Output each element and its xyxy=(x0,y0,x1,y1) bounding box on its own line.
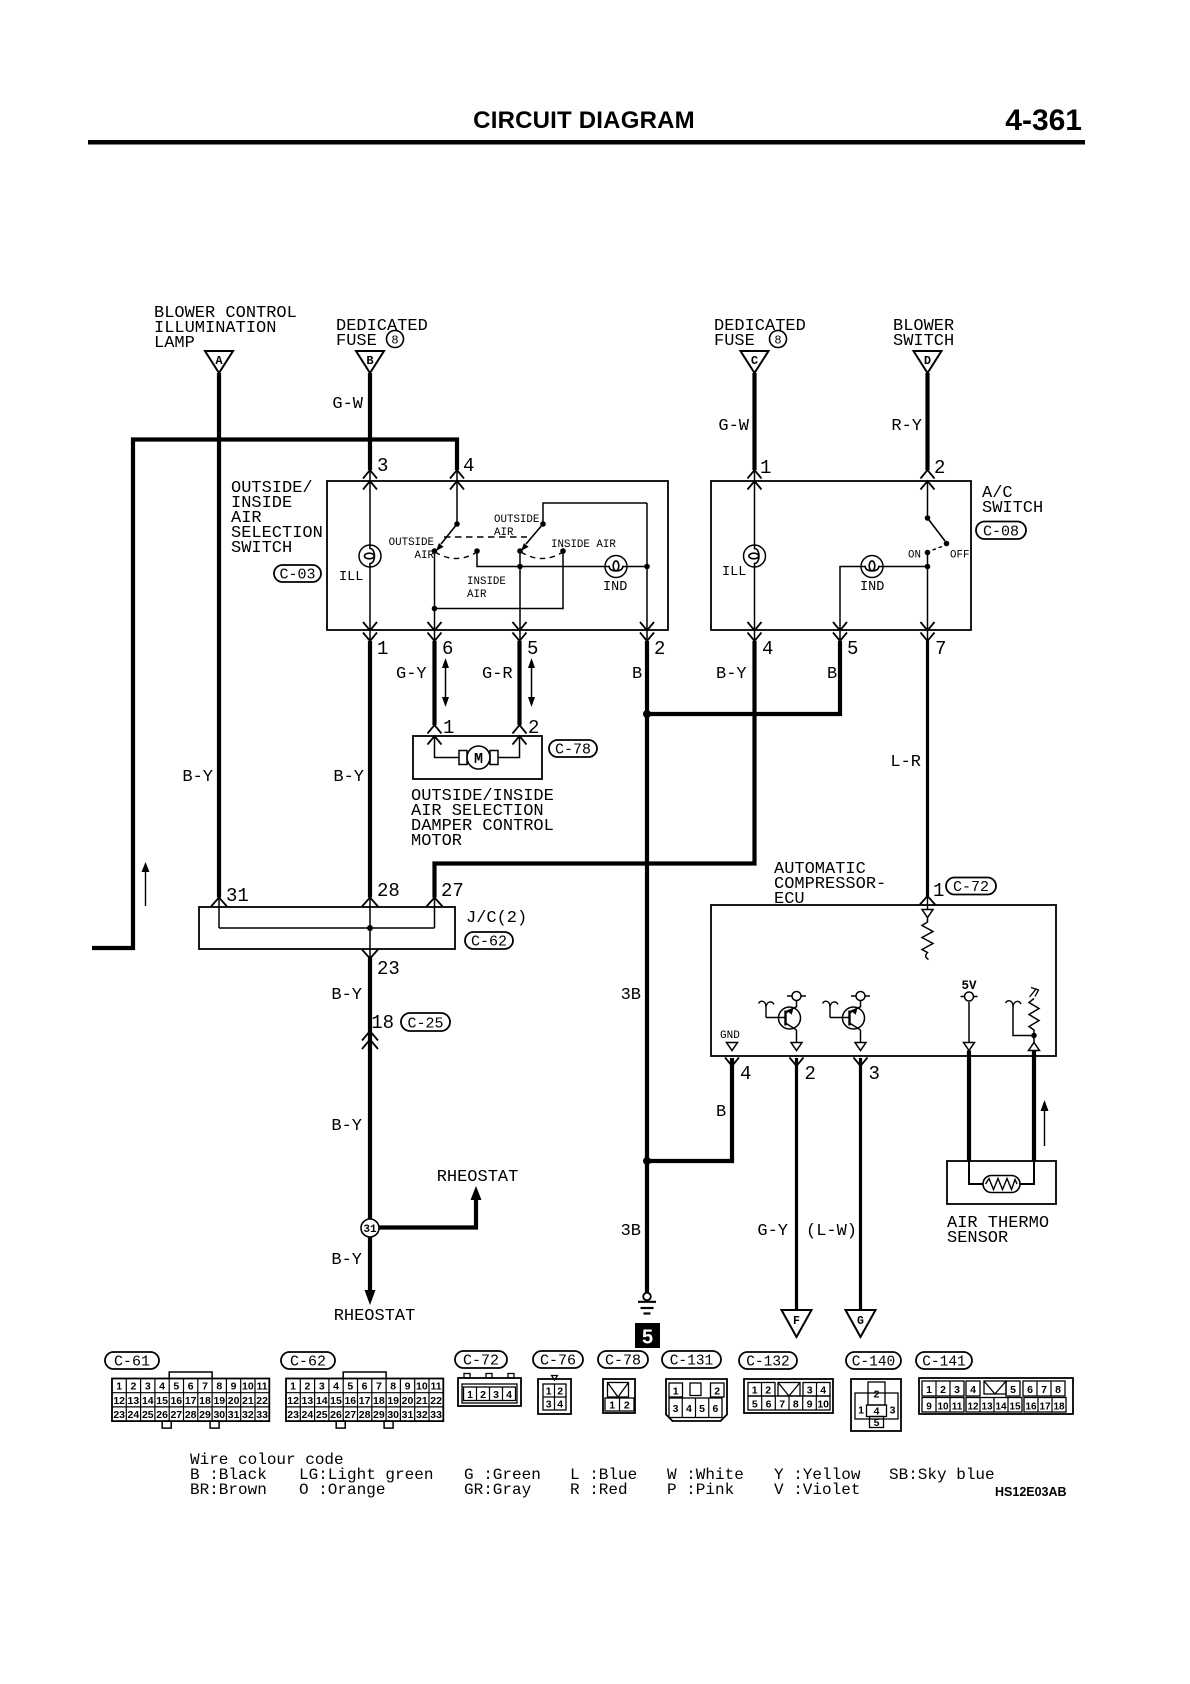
transistor Q2 xyxy=(823,1001,865,1043)
motor pin 1 entry chevrons xyxy=(428,725,442,745)
svg-text:C-78: C-78 xyxy=(605,1353,641,1370)
svg-text:J/C(2): J/C(2) xyxy=(466,909,527,928)
connector C-72 pin grid xyxy=(458,1374,521,1407)
svg-text:3: 3 xyxy=(673,1403,679,1415)
svg-text:10: 10 xyxy=(817,1399,829,1411)
switch box C-08 xyxy=(711,481,971,630)
svg-text:2: 2 xyxy=(130,1381,136,1393)
svg-text:C-25: C-25 xyxy=(407,1016,443,1033)
wire ECU pin3 to connector G xyxy=(859,1058,862,1310)
svg-text:5: 5 xyxy=(642,1327,653,1349)
svg-text:11: 11 xyxy=(431,1381,442,1393)
svg-text:15: 15 xyxy=(330,1395,342,1407)
connector label C-78 xyxy=(598,1351,648,1370)
pin2 column to switch pivot xyxy=(927,481,929,518)
svg-text:3B: 3B xyxy=(621,1222,641,1241)
svg-text:AIR: AIR xyxy=(467,589,487,601)
double arrow beside G-R xyxy=(528,658,535,707)
svg-text:SWITCH: SWITCH xyxy=(982,499,1043,518)
connector label C-72 xyxy=(946,878,996,897)
connector triangle G xyxy=(846,1310,876,1337)
label DEDICATED FUSE 8 (right) xyxy=(714,317,806,351)
svg-text:AIR: AIR xyxy=(494,527,514,539)
SECTION: c03 xyxy=(231,470,668,641)
svg-text:SENSOR: SENSOR xyxy=(947,1229,1008,1248)
wire blower switch D down to C-08 pin 2 xyxy=(925,373,929,470)
splice circle 31 xyxy=(361,1219,379,1237)
GND triangle xyxy=(727,1043,738,1051)
svg-text:4: 4 xyxy=(970,1384,976,1396)
transistor Q2 top port xyxy=(851,992,870,1001)
flow arrow beside sensor wire xyxy=(1041,1100,1049,1146)
svg-text:1: 1 xyxy=(752,1385,758,1397)
svg-text:1: 1 xyxy=(377,638,388,660)
svg-text:30: 30 xyxy=(213,1409,225,1421)
svg-text:OUTSIDE: OUTSIDE xyxy=(494,514,539,526)
svg-text:P :Pink: P :Pink xyxy=(667,1481,734,1499)
connector C-78 pin grid xyxy=(603,1379,635,1413)
svg-text:B: B xyxy=(716,1103,726,1122)
C-08 pin 4 exit chevrons xyxy=(748,622,762,641)
thermistor zigzag xyxy=(986,1179,1018,1190)
pin3 column to ILL lamp xyxy=(369,470,371,545)
svg-text:19: 19 xyxy=(387,1395,399,1407)
SECTION: wires xyxy=(92,373,946,1293)
svg-text:R-Y: R-Y xyxy=(891,417,922,436)
svg-text:1: 1 xyxy=(546,1386,552,1398)
svg-text:ILL: ILL xyxy=(722,565,746,580)
svg-text:4: 4 xyxy=(506,1389,512,1401)
svg-text:1: 1 xyxy=(467,1389,473,1401)
SECTION: connrow xyxy=(105,1351,1073,1431)
wire G-R pin5 to motor pin2 xyxy=(517,641,521,725)
svg-text:3: 3 xyxy=(377,455,388,477)
connector label C-72 xyxy=(455,1351,507,1370)
pin2 inner column xyxy=(646,503,648,641)
ILL lamp to pin 1 xyxy=(369,567,371,641)
svg-text:SB:Sky blue: SB:Sky blue xyxy=(889,1466,995,1484)
connector label C-132 xyxy=(739,1352,797,1371)
wire ECU pin2 to connector F xyxy=(795,1058,798,1310)
junction dot B wires xyxy=(643,710,651,718)
ON contact down to pin 7 xyxy=(927,553,929,642)
sensor inner leads xyxy=(969,1161,1034,1184)
transistor Q1 top port xyxy=(787,992,806,1001)
label DEDICATED FUSE 8 (left) xyxy=(336,317,428,351)
wire B-Y from C-03 pin1 to J/C pin 28 xyxy=(368,641,372,898)
connector C-132 pin grid xyxy=(744,1379,833,1413)
pin1 column to ILL lamp xyxy=(754,470,756,545)
motor box C-78 xyxy=(413,736,542,779)
svg-text:33: 33 xyxy=(430,1409,442,1421)
svg-text:20: 20 xyxy=(402,1395,414,1407)
svg-text:5: 5 xyxy=(1010,1384,1016,1396)
motor inner wiring left xyxy=(435,736,460,758)
ECU pin 3 exit chevron xyxy=(854,1058,868,1067)
junction dot on pin6 column xyxy=(432,606,438,612)
svg-text:11: 11 xyxy=(257,1381,268,1393)
svg-text:ON: ON xyxy=(908,550,921,562)
svg-text:26: 26 xyxy=(330,1409,342,1421)
svg-text:C-62: C-62 xyxy=(471,934,507,951)
pin 2 chevrons (C-08 entry) xyxy=(921,470,935,490)
svg-text:22: 22 xyxy=(430,1395,442,1407)
svg-text:7: 7 xyxy=(202,1381,208,1393)
5V line to output xyxy=(968,1002,970,1043)
svg-text:V :Violet: V :Violet xyxy=(774,1481,860,1499)
svg-text:3: 3 xyxy=(869,1063,880,1085)
svg-text:G-R: G-R xyxy=(482,665,513,684)
C-03 pin 2 exit chevrons xyxy=(640,622,654,641)
rheostat branch wire xyxy=(380,1199,477,1228)
lamp ILL (C-03) xyxy=(359,545,381,567)
SECTION: colourcode xyxy=(190,1451,1067,1499)
svg-text:18: 18 xyxy=(373,1395,385,1407)
svg-text:M: M xyxy=(474,751,483,768)
wire from lamp A down to J/C pin 31 xyxy=(217,373,221,898)
wire B-Y from C-08 pin4 across to J/C pin 27 xyxy=(435,641,755,898)
svg-text:C-140: C-140 xyxy=(852,1355,896,1371)
transistor Q1 xyxy=(759,1001,801,1043)
svg-text:8: 8 xyxy=(391,334,398,348)
SECTION: sensor xyxy=(947,1100,1056,1248)
svg-text:4: 4 xyxy=(463,455,474,477)
inline connector C-25 chevrons (pin 18) xyxy=(362,1031,378,1049)
left switch blade xyxy=(441,524,457,544)
svg-text:2: 2 xyxy=(480,1389,486,1401)
sensor divider internal circuit xyxy=(1006,988,1040,1051)
svg-text:4-361: 4-361 xyxy=(1005,104,1082,137)
svg-text:10: 10 xyxy=(416,1381,428,1393)
svg-text:C-08: C-08 xyxy=(983,524,1019,541)
svg-text:4: 4 xyxy=(159,1381,165,1393)
svg-text:C-131: C-131 xyxy=(670,1354,714,1370)
label BLOWER SWITCH xyxy=(893,317,954,351)
svg-text:RHEOSTAT: RHEOSTAT xyxy=(437,1168,519,1187)
svg-text:C: C xyxy=(751,354,758,368)
svg-text:IND: IND xyxy=(860,580,884,595)
svg-text:6: 6 xyxy=(712,1403,718,1415)
svg-text:20: 20 xyxy=(228,1395,240,1407)
svg-text:2: 2 xyxy=(304,1381,310,1393)
svg-text:L-R: L-R xyxy=(890,753,921,772)
svg-text:G-W: G-W xyxy=(718,417,749,436)
svg-text:14: 14 xyxy=(316,1395,328,1407)
ILL lamp down to pin 4 xyxy=(754,567,756,641)
svg-text:4: 4 xyxy=(686,1403,692,1415)
svg-text:22: 22 xyxy=(256,1395,268,1407)
svg-text:A: A xyxy=(215,354,223,368)
rheostat branch arrow up xyxy=(471,1186,482,1200)
svg-text:B-Y: B-Y xyxy=(716,665,747,684)
C-08 pin 7 exit chevrons xyxy=(921,622,935,641)
double arrow beside G-Y xyxy=(442,658,449,707)
label INSIDE AIR (left switch) xyxy=(467,576,506,601)
svg-text:1: 1 xyxy=(609,1400,615,1412)
J/C pin 31 entry chevrons xyxy=(211,898,227,907)
svg-text:G-Y: G-Y xyxy=(396,665,427,684)
svg-text:5: 5 xyxy=(847,638,858,660)
ECU box xyxy=(711,905,1056,1056)
svg-text:3: 3 xyxy=(493,1389,499,1401)
svg-text:6: 6 xyxy=(442,638,453,660)
svg-text:31: 31 xyxy=(228,1409,240,1421)
svg-text:INSIDE AIR: INSIDE AIR xyxy=(551,539,616,551)
svg-text:1: 1 xyxy=(290,1381,296,1393)
connector label C-131 xyxy=(662,1351,721,1370)
svg-text:5: 5 xyxy=(874,1417,880,1429)
svg-text:31: 31 xyxy=(402,1409,414,1421)
svg-text:8: 8 xyxy=(1055,1384,1061,1396)
svg-text:B: B xyxy=(827,665,837,684)
svg-text:F: F xyxy=(793,1315,800,1328)
J/C pin 27 entry chevrons xyxy=(427,898,443,907)
svg-text:17: 17 xyxy=(1039,1402,1051,1413)
C-08 pin 5 exit chevrons xyxy=(833,622,847,641)
ECU pin 2 exit chevron xyxy=(790,1058,804,1067)
svg-text:23: 23 xyxy=(113,1409,125,1421)
A/C switch blade end dot xyxy=(944,541,950,547)
ON contact dot xyxy=(925,550,931,556)
dashed travel arc right switch xyxy=(521,552,563,559)
svg-text:8: 8 xyxy=(216,1381,222,1393)
connector triangle D xyxy=(914,351,942,373)
svg-text:29: 29 xyxy=(199,1409,211,1421)
svg-text:C-61: C-61 xyxy=(114,1354,150,1371)
5V output triangle xyxy=(964,1043,975,1051)
IND feed line left segment xyxy=(520,566,605,568)
svg-text:30: 30 xyxy=(387,1409,399,1421)
svg-text:28: 28 xyxy=(377,880,400,902)
connector label C-61 xyxy=(105,1352,159,1371)
svg-text:1: 1 xyxy=(858,1405,864,1417)
ground symbol xyxy=(638,1293,656,1314)
svg-text:5: 5 xyxy=(173,1381,179,1393)
pin 1 chevrons (C-08 entry) xyxy=(748,470,762,490)
ground reference 5 black box xyxy=(635,1323,660,1349)
J/C pin 23 exit chevrons xyxy=(362,950,378,959)
ECU pin 1 entry chevrons xyxy=(920,896,936,905)
svg-text:2: 2 xyxy=(624,1400,630,1412)
svg-text:31: 31 xyxy=(363,1224,377,1236)
connector C-140 pin grid xyxy=(851,1379,901,1431)
thermistor stadium xyxy=(983,1176,1020,1193)
right switch pivot dot xyxy=(540,521,546,527)
left contact column to pin 6 xyxy=(434,551,436,641)
svg-text:4: 4 xyxy=(820,1385,826,1397)
svg-text:13: 13 xyxy=(302,1395,314,1407)
svg-text:RHEOSTAT: RHEOSTAT xyxy=(334,1307,416,1326)
svg-text:10: 10 xyxy=(937,1402,949,1413)
SECTION: motor xyxy=(411,717,597,851)
svg-text:3: 3 xyxy=(145,1381,151,1393)
svg-text:9: 9 xyxy=(405,1381,411,1393)
svg-text:13: 13 xyxy=(128,1395,140,1407)
svg-text:5: 5 xyxy=(752,1399,758,1411)
left switch OUTSIDE AIR contact dot xyxy=(432,548,438,554)
left INSIDE contact to IND line xyxy=(477,551,520,567)
svg-text:17: 17 xyxy=(185,1395,197,1407)
svg-text:MOTOR: MOTOR xyxy=(411,832,462,851)
svg-text:INSIDE: INSIDE xyxy=(467,576,506,588)
SECTION: c08 xyxy=(711,470,1043,641)
svg-text:C-78: C-78 xyxy=(555,742,591,759)
colour code row 2 xyxy=(190,1481,860,1499)
svg-text:7: 7 xyxy=(935,638,946,660)
svg-text:9: 9 xyxy=(807,1399,813,1411)
svg-text:1: 1 xyxy=(673,1386,679,1398)
connector triangle F xyxy=(782,1310,812,1337)
svg-text:GR:Gray: GR:Gray xyxy=(464,1481,532,1499)
junction dot pin2 column xyxy=(644,564,650,570)
svg-text:B: B xyxy=(366,354,373,368)
svg-text:16: 16 xyxy=(170,1395,182,1407)
svg-text:B-Y: B-Y xyxy=(331,1117,362,1136)
right switch blade xyxy=(526,524,543,544)
transistor Q1 emitter triangle xyxy=(791,1043,802,1051)
connector C-61 pin grid xyxy=(112,1372,269,1428)
svg-text:BR:Brown: BR:Brown xyxy=(190,1481,267,1499)
connector label C-141 xyxy=(916,1352,972,1371)
svg-text:C-03: C-03 xyxy=(279,567,315,584)
junction block box J/C(2) xyxy=(199,907,455,949)
svg-text:C-62: C-62 xyxy=(290,1354,326,1371)
connector label C-78 xyxy=(549,740,597,759)
svg-text:18: 18 xyxy=(371,1012,394,1034)
svg-text:2: 2 xyxy=(765,1385,771,1397)
svg-text:GND: GND xyxy=(720,1030,740,1042)
svg-text:C-72: C-72 xyxy=(463,1353,499,1370)
svg-text:19: 19 xyxy=(213,1395,225,1407)
connector C-76 pin grid xyxy=(538,1376,571,1415)
C-03 pin 1 exit chevrons xyxy=(363,622,377,641)
svg-text:5: 5 xyxy=(347,1381,353,1393)
svg-text:18: 18 xyxy=(199,1395,211,1407)
connector C-131 pin grid xyxy=(666,1379,727,1421)
header rule xyxy=(88,140,1085,145)
label AIR THERMO SENSOR xyxy=(947,1214,1049,1248)
SECTION: top-labels xyxy=(154,304,954,436)
svg-text:1: 1 xyxy=(116,1381,122,1393)
svg-text:8: 8 xyxy=(774,334,781,348)
input triangle pin1 xyxy=(922,910,933,918)
junction dot 3B to ECU pin 4 xyxy=(643,1157,651,1165)
svg-text:C-72: C-72 xyxy=(953,879,989,896)
switch box C-03 xyxy=(327,481,668,630)
IND feed line to pin 5 column xyxy=(840,567,928,642)
svg-text:4: 4 xyxy=(740,1063,751,1085)
connector label C-03 xyxy=(274,565,321,584)
svg-text:6: 6 xyxy=(1027,1384,1033,1396)
svg-text:D: D xyxy=(924,354,931,368)
svg-text:CIRCUIT DIAGRAM: CIRCUIT DIAGRAM xyxy=(473,107,695,134)
connector label C-08 xyxy=(976,522,1026,541)
motor symbol M xyxy=(467,746,490,769)
connector C-62 pin grid xyxy=(286,1372,443,1428)
label BLOWER CONTROL ILLUMINATION LAMP xyxy=(154,304,297,353)
svg-text:B-Y: B-Y xyxy=(331,986,362,1005)
wire G-Y pin6 to motor pin1 xyxy=(432,641,436,725)
svg-text:C-141: C-141 xyxy=(922,1355,966,1371)
pin 3 chevrons (C-03 entry) xyxy=(363,470,377,490)
wire link 3B junction to ECU pin4 xyxy=(647,1058,732,1161)
svg-text:32: 32 xyxy=(416,1409,428,1421)
svg-text:5: 5 xyxy=(527,638,538,660)
svg-text:ILL: ILL xyxy=(339,570,363,585)
svg-text:5V: 5V xyxy=(961,979,977,993)
svg-text:B-Y: B-Y xyxy=(333,768,364,787)
svg-text:21: 21 xyxy=(416,1395,428,1407)
J/C inner bus xyxy=(219,898,435,957)
svg-text:1: 1 xyxy=(926,1384,932,1396)
lamp IND (C-03) xyxy=(605,556,627,578)
svg-text:24: 24 xyxy=(302,1409,314,1421)
svg-text:1: 1 xyxy=(760,457,771,479)
svg-text:11: 11 xyxy=(952,1402,963,1413)
svg-text:LAMP: LAMP xyxy=(154,334,195,353)
left switch pivot dot xyxy=(454,521,460,527)
svg-text:8: 8 xyxy=(793,1399,799,1411)
SECTION: ecu xyxy=(711,860,1056,1337)
left switch blade arrowhead xyxy=(436,543,444,551)
gang dashed link between blades xyxy=(444,536,527,538)
svg-text:10: 10 xyxy=(242,1381,254,1393)
wire fuse B down to pin 3 xyxy=(368,373,372,470)
A/C switch blade xyxy=(928,518,946,541)
svg-text:7: 7 xyxy=(779,1399,785,1411)
svg-text:3: 3 xyxy=(546,1399,552,1411)
svg-text:3: 3 xyxy=(319,1381,325,1393)
svg-text:24: 24 xyxy=(128,1409,140,1421)
pin 4 chevrons (C-03 entry) xyxy=(450,470,464,490)
svg-text:4: 4 xyxy=(333,1381,339,1393)
svg-text:12: 12 xyxy=(287,1395,299,1407)
svg-text:12: 12 xyxy=(967,1402,979,1413)
svg-text:6: 6 xyxy=(766,1399,772,1411)
motor inner wiring right xyxy=(498,736,520,758)
svg-text:14: 14 xyxy=(142,1395,154,1407)
junction dot IND to pin7 column xyxy=(925,564,931,570)
svg-text:OFF: OFF xyxy=(950,550,969,562)
svg-text:2: 2 xyxy=(654,638,665,660)
svg-text:12: 12 xyxy=(113,1395,125,1407)
wire G-W bus from fuse B: left leg and pin 4 feed xyxy=(92,440,457,949)
svg-text:8: 8 xyxy=(390,1381,396,1393)
svg-text:25: 25 xyxy=(142,1409,154,1421)
connector label C-25 xyxy=(401,1013,450,1033)
J/C pin 28 entry chevrons xyxy=(362,898,378,907)
5V source circle xyxy=(961,992,978,1001)
svg-text:2: 2 xyxy=(934,457,945,479)
svg-text:SWITCH: SWITCH xyxy=(231,539,292,558)
svg-text:31: 31 xyxy=(226,885,249,907)
svg-text:HS12E03AB: HS12E03AB xyxy=(995,1485,1067,1499)
svg-text:2: 2 xyxy=(874,1389,880,1401)
svg-text:AIR: AIR xyxy=(415,550,435,562)
IND to pin2 column xyxy=(627,566,647,568)
connector label C-76 xyxy=(533,1351,583,1370)
svg-text:32: 32 xyxy=(242,1409,254,1421)
svg-text:B-Y: B-Y xyxy=(331,1251,362,1270)
left INSIDE AIR contact dot xyxy=(474,548,480,554)
label A/C SWITCH xyxy=(982,484,1043,518)
C-03 pin 6 exit chevrons xyxy=(428,622,442,641)
motor pin 2 entry chevrons xyxy=(513,725,527,745)
C-03 pin 5 exit chevrons xyxy=(513,622,527,641)
connector label C-62 xyxy=(281,1352,335,1371)
wire 5V output to sensor xyxy=(967,1051,971,1162)
air thermo sensor box xyxy=(947,1161,1056,1204)
